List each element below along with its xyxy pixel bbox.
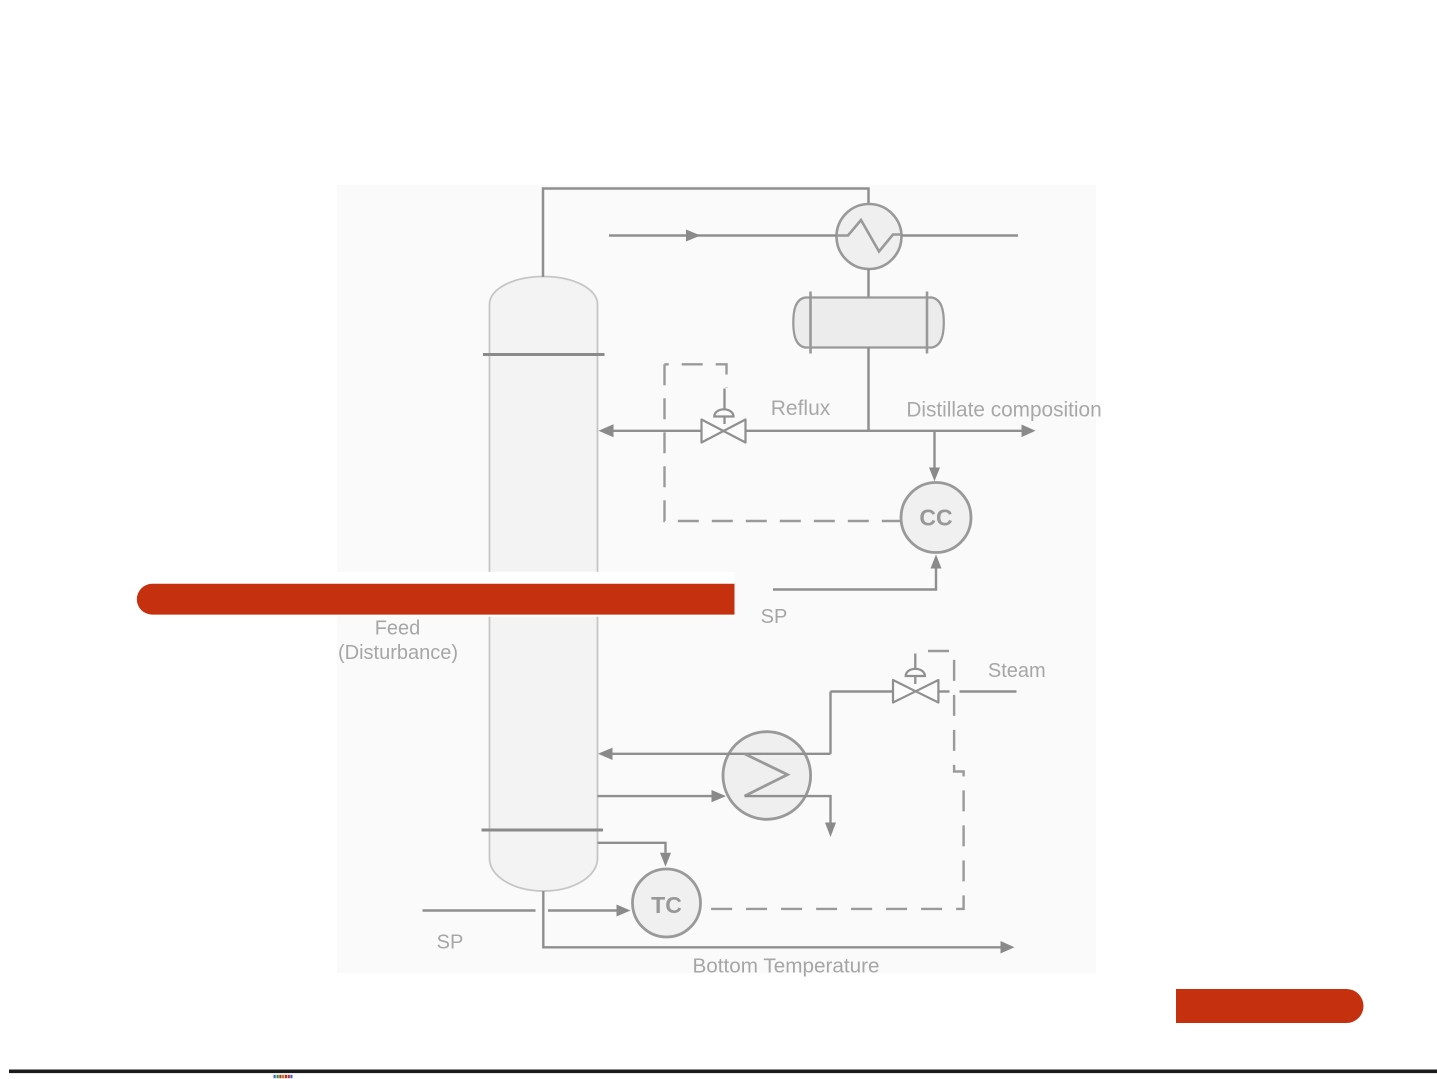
svg-text:SP: SP — [437, 932, 464, 954]
white band behind red bar — [135, 572, 735, 617]
lower tray line — [482, 829, 604, 832]
SP line to TC — [423, 905, 631, 917]
steam pipe left of valve — [831, 690, 894, 692]
column bottoms arrow to TC — [598, 843, 672, 867]
pipe accumulator to distillate line — [867, 348, 870, 431]
svg-text:Reflux: Reflux — [771, 397, 831, 420]
bottoms line column to reboiler — [598, 790, 727, 802]
reflux accumulator drum D1 — [793, 292, 944, 354]
taskbar icon specks — [274, 1075, 293, 1078]
SP line to CC — [773, 555, 942, 590]
arrow distillate out — [1022, 425, 1036, 438]
dashed signal line valve V1 to controller CC — [665, 364, 727, 388]
bottom temperature line — [543, 891, 1014, 954]
svg-text:(Disturbance): (Disturbance) — [338, 642, 458, 664]
coolant line right — [902, 234, 1019, 236]
arrow distillate line to CC — [929, 432, 940, 481]
reflux / distillate line — [612, 430, 1022, 432]
upper tray line — [483, 353, 605, 356]
svg-text:Distillate composition: Distillate composition — [906, 399, 1101, 422]
vapor return line to column — [598, 748, 831, 760]
reboiler chevron — [745, 754, 788, 796]
svg-text:SP: SP — [761, 606, 788, 628]
svg-text:TC: TC — [651, 892, 682, 918]
reboiler E2 — [723, 732, 811, 820]
bottom screen edge black bar — [9, 1070, 1437, 1074]
temperature controller TC — [633, 869, 701, 937]
svg-text:Steam: Steam — [988, 660, 1046, 682]
steam down pipe to reboiler — [829, 692, 831, 754]
coolant line left with arrow — [609, 230, 837, 242]
diagram background panel — [337, 185, 1096, 973]
dashed signal line valve V2 to controller TC — [704, 651, 964, 909]
distillation column T1 — [490, 277, 598, 892]
composition controller CC — [901, 483, 971, 553]
reboiler outlet down arrow — [745, 796, 837, 837]
svg-text:Bottom Temperature: Bottom Temperature — [692, 955, 879, 978]
pipe condenser to accumulator — [867, 269, 870, 298]
steam pipe right of valve — [938, 690, 949, 692]
overhead vapor pipe — [543, 189, 869, 278]
svg-text:CC: CC — [919, 505, 952, 531]
red highlight bar (bottom right) — [1176, 989, 1364, 1023]
svg-text:Feed: Feed — [375, 618, 421, 640]
steam control valve V2 — [893, 654, 938, 703]
red highlight bar (middle) — [137, 584, 735, 615]
arrow into column (reflux) — [599, 424, 614, 437]
condenser E1 — [837, 204, 902, 269]
reflux control valve V1 — [702, 389, 746, 443]
